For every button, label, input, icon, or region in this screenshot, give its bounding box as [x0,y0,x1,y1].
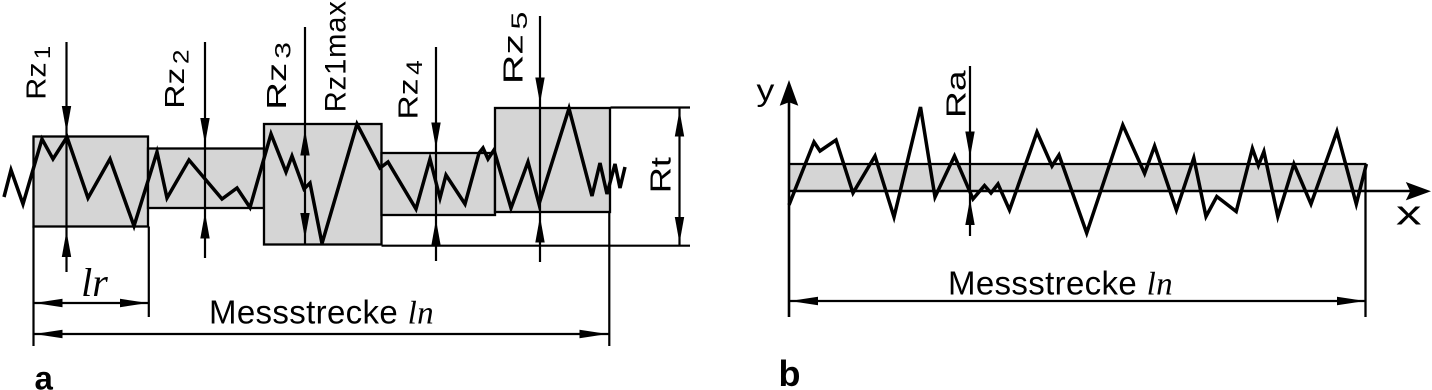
svg-text:Messstrecke ln: Messstrecke ln [209,293,434,331]
svg-text:Messstrecke ln: Messstrecke ln [948,265,1173,303]
svg-text:Rz1max: Rz1max [319,0,352,112]
svg-text:Rt: Rt [644,157,677,193]
svg-text:x: x [1396,195,1422,233]
svg-text:b: b [779,353,801,390]
svg-text:y: y [757,74,775,108]
svg-text:Ra: Ra [940,70,971,118]
svg-text:a: a [35,360,54,390]
svg-text:lr: lr [81,260,108,305]
